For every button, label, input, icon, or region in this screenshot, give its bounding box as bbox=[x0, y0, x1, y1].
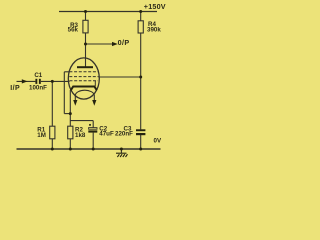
C2 polarity dot bbox=[89, 124, 91, 126]
tube V1 envelope bbox=[68, 58, 99, 99]
node R4 top bbox=[139, 10, 142, 13]
node grid input bbox=[51, 80, 54, 83]
node R2 ground bbox=[69, 148, 72, 151]
wire cathode lead bbox=[69, 90, 71, 114]
output arrow bbox=[112, 42, 118, 46]
node ground stub bbox=[120, 148, 123, 151]
svg-text:0/P: 0/P bbox=[118, 38, 130, 47]
wire HT top rail bbox=[59, 11, 157, 13]
svg-text:1M: 1M bbox=[37, 132, 46, 139]
wire screen grid lead bbox=[98, 76, 140, 78]
capacitor C2 bbox=[89, 128, 97, 130]
tube grid g1 row bbox=[69, 71, 98, 73]
svg-text:100nF: 100nF bbox=[29, 84, 47, 91]
wire R1 top lead bbox=[51, 81, 53, 126]
wire C3 bottom lead bbox=[140, 135, 142, 149]
wire input line right of C1 to grid bbox=[41, 80, 70, 82]
node R1 ground bbox=[51, 148, 54, 151]
resistor R4 bbox=[138, 21, 143, 33]
svg-text:56k: 56k bbox=[68, 27, 79, 34]
wire 0V bottom rail bbox=[17, 148, 161, 150]
svg-text:C1: C1 bbox=[34, 72, 42, 79]
tube g3-cathode tie bbox=[94, 81, 96, 87]
svg-text:+150V: +150V bbox=[144, 2, 166, 11]
node anode output tap bbox=[84, 43, 87, 46]
wire R4 top lead bbox=[140, 12, 142, 21]
tube anode plate bbox=[77, 66, 93, 68]
wire ground stub bbox=[120, 149, 122, 153]
wire C2 branch horizontal bbox=[70, 120, 93, 122]
input arrow bbox=[22, 79, 28, 83]
capacitor C3 bbox=[136, 129, 145, 131]
svg-text:I/P: I/P bbox=[10, 85, 20, 92]
wire grid branch corner to cathode node bbox=[64, 113, 70, 115]
svg-text:47uF: 47uF bbox=[99, 131, 114, 138]
wire heater left leg bbox=[74, 95, 76, 101]
wire R2 bottom lead bbox=[69, 139, 71, 149]
junction dots bbox=[51, 10, 142, 151]
resistor R2 bbox=[68, 126, 73, 139]
node screen bbox=[139, 76, 142, 79]
svg-text:220nF: 220nF bbox=[115, 131, 133, 138]
wire grid g1 lead horizontal bbox=[64, 71, 68, 73]
wire C2 top lead bbox=[92, 121, 94, 128]
wire heater right leg bbox=[93, 95, 95, 101]
node C2 ground bbox=[92, 148, 95, 151]
wire input line left of C1 bbox=[17, 80, 36, 82]
wire R1 bottom lead bbox=[51, 139, 53, 149]
node R3 top bbox=[84, 10, 87, 13]
svg-text:1k8: 1k8 bbox=[75, 132, 86, 139]
capacitor C1 bbox=[35, 79, 37, 84]
tube grid g2 row bbox=[69, 76, 98, 78]
tube cathode bbox=[71, 87, 97, 91]
wire cathode node to R2 bbox=[69, 114, 71, 127]
heater left arrow bbox=[73, 100, 77, 106]
node cathode junction bbox=[69, 112, 72, 115]
ground bbox=[116, 153, 128, 157]
wire grid branch vertical bbox=[63, 72, 65, 114]
wire C2 bottom lead bbox=[92, 133, 94, 149]
tube grid g3 row bbox=[70, 80, 99, 82]
svg-text:390k: 390k bbox=[147, 27, 161, 34]
wire screen feed vertical bbox=[140, 33, 142, 129]
tube heater arc bbox=[75, 90, 94, 95]
wire output tap bbox=[86, 43, 114, 45]
resistor R3 bbox=[83, 20, 88, 33]
heater right arrow bbox=[92, 100, 96, 106]
wire R3 top lead bbox=[85, 12, 87, 21]
node C3 ground bbox=[139, 148, 142, 151]
resistor R1 bbox=[50, 126, 55, 139]
svg-text:0V: 0V bbox=[154, 138, 162, 145]
wire anode lead bbox=[85, 33, 87, 67]
